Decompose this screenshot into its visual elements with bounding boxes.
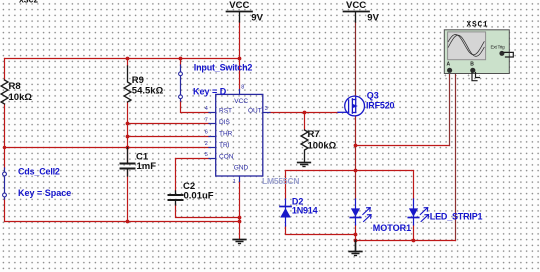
svg-text:GND: GND (234, 165, 249, 172)
svg-text:7: 7 (205, 118, 208, 124)
svg-text:6: 6 (205, 129, 208, 135)
svg-text:VCC: VCC (234, 98, 248, 105)
svg-text:XSC1: XSC1 (467, 21, 489, 29)
svg-text:2: 2 (205, 141, 208, 147)
svg-text:5: 5 (205, 152, 208, 158)
svg-text:1: 1 (233, 179, 236, 185)
svg-text:DIS: DIS (219, 119, 231, 126)
svg-text:LED_STRIP1: LED_STRIP1 (430, 212, 483, 222)
svg-text:100kΩ: 100kΩ (308, 141, 337, 152)
svg-text:R7: R7 (308, 129, 320, 140)
svg-text:+: + (467, 73, 470, 78)
svg-text:Key = D: Key = D (193, 87, 227, 97)
svg-text:Cds_Cell2: Cds_Cell2 (18, 167, 60, 177)
svg-text:R9: R9 (132, 75, 144, 86)
svg-text:RST: RST (219, 107, 232, 114)
svg-text:THR: THR (219, 131, 233, 138)
svg-text:VCC: VCC (229, 0, 249, 11)
svg-text:1N914: 1N914 (292, 206, 318, 216)
svg-text:TRI: TRI (219, 142, 230, 149)
svg-text:+: + (444, 73, 447, 78)
svg-text:10kΩ: 10kΩ (9, 92, 33, 103)
svg-text:LM555CN: LM555CN (262, 176, 299, 186)
svg-text:Q3: Q3 (367, 91, 379, 101)
svg-text:CON: CON (219, 153, 234, 160)
svg-text:4: 4 (205, 106, 208, 112)
svg-text:OUT: OUT (248, 107, 262, 114)
svg-text:VCC: VCC (346, 0, 366, 11)
svg-text:0.01uF: 0.01uF (184, 191, 214, 202)
svg-text:A: A (447, 61, 451, 67)
svg-text:XSC2: XSC2 (19, 0, 38, 6)
svg-text:3: 3 (265, 106, 268, 112)
svg-text:Key = Space: Key = Space (18, 188, 71, 198)
svg-text:MOTOR1: MOTOR1 (373, 223, 411, 233)
svg-text:Ext Trig: Ext Trig (491, 45, 505, 51)
svg-text:Input_Switch2: Input_Switch2 (194, 63, 253, 73)
svg-text:IRF520: IRF520 (366, 101, 395, 111)
svg-text:8: 8 (241, 85, 244, 91)
svg-text:9V: 9V (367, 13, 379, 24)
svg-text:B: B (470, 61, 474, 67)
svg-text:9V: 9V (251, 13, 263, 24)
svg-text:54.5kΩ: 54.5kΩ (132, 86, 164, 97)
svg-text:1mF: 1mF (137, 161, 157, 172)
svg-text:R8: R8 (9, 81, 21, 92)
